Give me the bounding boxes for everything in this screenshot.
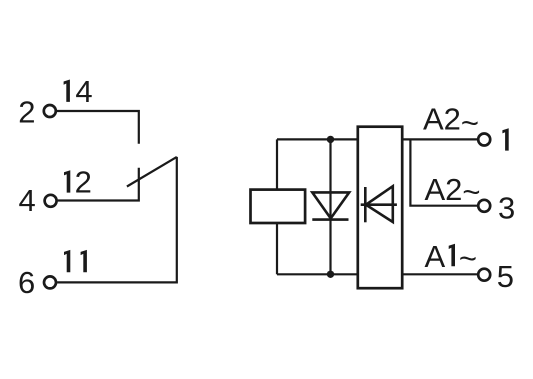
svg-text:5: 5 xyxy=(497,259,514,294)
rectifier box U1 xyxy=(358,127,402,289)
wire from terminal 2 to NO contact xyxy=(57,111,139,144)
label 12 xyxy=(64,170,70,192)
wire top bus (coil network) xyxy=(277,138,358,140)
terminal 6 xyxy=(44,276,56,288)
wire to terminal 1 xyxy=(403,138,477,140)
junction top xyxy=(327,136,334,143)
svg-text:4: 4 xyxy=(19,183,36,218)
switch arm (changeover contact) xyxy=(127,157,177,187)
svg-text:3: 3 xyxy=(498,191,515,226)
terminal 3 xyxy=(478,200,490,212)
svg-text:2: 2 xyxy=(75,164,92,199)
svg-text:~: ~ xyxy=(459,241,477,276)
terminal 1 xyxy=(478,134,490,146)
wire to terminal 5 xyxy=(403,273,477,275)
label 11 xyxy=(64,250,70,272)
svg-text:A: A xyxy=(425,239,446,274)
terminal 4 xyxy=(45,195,57,207)
svg-text:4: 4 xyxy=(75,74,92,109)
wire left branch upper xyxy=(276,139,278,189)
terminal 5 xyxy=(478,269,490,281)
svg-text:6: 6 xyxy=(18,265,35,300)
terminal 2 xyxy=(44,105,56,117)
svg-text:A2~: A2~ xyxy=(425,172,481,210)
label 1 xyxy=(502,128,508,150)
diode D1 (freewheeling, cathode down) xyxy=(312,192,349,219)
svg-text:A2~: A2~ xyxy=(423,102,479,141)
wire to terminal 3 xyxy=(410,139,477,205)
relay coil box xyxy=(251,190,306,223)
svg-text:2: 2 xyxy=(18,94,35,129)
wire from terminal 6 (common) xyxy=(57,157,177,283)
wire middle branch xyxy=(329,139,331,274)
junction bottom xyxy=(327,271,334,278)
wire from terminal 4 to NC contact xyxy=(58,168,139,201)
label 14 xyxy=(64,80,70,102)
wire left branch lower xyxy=(276,223,278,275)
diode D2 (inside box, cathode left) xyxy=(361,186,397,222)
wire bottom bus (coil network) xyxy=(277,273,358,275)
